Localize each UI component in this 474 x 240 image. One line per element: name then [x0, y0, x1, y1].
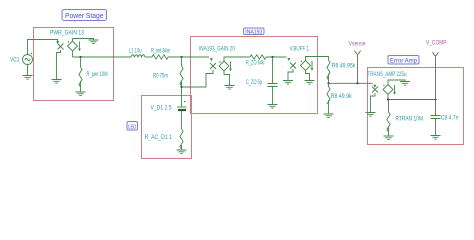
svg-text:L1 10u: L1 10u [129, 48, 142, 55]
svg-text:V.BUFF 1: V.BUFF 1 [290, 46, 310, 53]
svg-text:PWR_GAIN 13: PWR_GAIN 13 [50, 30, 84, 37]
svg-text:R6 49.95k: R6 49.95k [332, 63, 356, 70]
svg-text:C_ZO 5p: C_ZO 5p [246, 79, 262, 86]
svg-text:R8 49.9k: R8 49.9k [331, 93, 353, 100]
svg-text:LED: LED [128, 124, 136, 130]
svg-text:R_ZO 64k: R_ZO 64k [246, 60, 264, 67]
svg-text:R_AC_D1 1: R_AC_D1 1 [145, 134, 173, 141]
svg-text:Vsense: Vsense [349, 41, 366, 48]
svg-text:INA193: INA193 [245, 29, 262, 35]
svg-text:V_COMP: V_COMP [426, 40, 447, 47]
svg-text:Power Stage: Power Stage [65, 13, 104, 20]
svg-text:C8 4.7n: C8 4.7n [441, 115, 459, 122]
svg-text:V_D1 2.5: V_D1 2.5 [151, 105, 172, 112]
svg-text:RTRAN 10M: RTRAN 10M [396, 116, 424, 123]
svg-text:R_ind 84m: R_ind 84m [151, 48, 170, 55]
svg-text:TRANS_AMP 225u: TRANS_AMP 225u [368, 71, 407, 78]
svg-text:VC1: VC1 [10, 57, 20, 64]
svg-text:INA193_GAIN 20: INA193_GAIN 20 [199, 46, 235, 53]
svg-text:R_pwr 10M: R_pwr 10M [87, 71, 108, 78]
svg-text:R0 75m: R0 75m [153, 73, 168, 80]
svg-text:Error Amp: Error Amp [390, 57, 417, 64]
